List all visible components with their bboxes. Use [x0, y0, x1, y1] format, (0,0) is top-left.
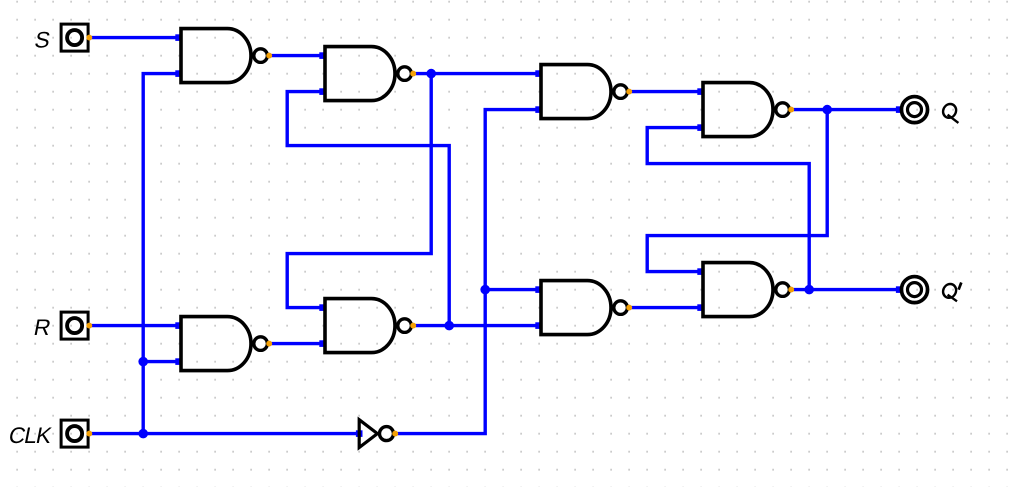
wire U4 out to Q	[791, 108, 899, 111]
port dot U6 out	[410, 323, 416, 329]
junction U9 output net	[480, 285, 490, 295]
wire end at U2.B	[319, 88, 326, 95]
wire end at U6.A	[319, 304, 326, 311]
port dot U2 out	[410, 71, 416, 77]
wire end at U4.B	[697, 124, 704, 131]
wire end at U5.B	[175, 358, 182, 365]
NAND gate U3	[541, 65, 627, 119]
port dot U4 out	[788, 107, 794, 113]
wire U1 out to U2 input A	[269, 54, 324, 57]
port dot U1 out	[266, 53, 272, 59]
wire end at Q1 pin	[896, 286, 903, 293]
svg-text:CLK: CLK	[7, 422, 54, 448]
output pin Q1	[901, 277, 927, 303]
NAND gate U7	[541, 281, 627, 335]
NAND gate U5	[181, 317, 267, 371]
junction CLK net on CLK row	[138, 429, 148, 439]
wire end at Q pin	[896, 106, 903, 113]
wire U6 out to U7 input B	[413, 324, 540, 327]
input pin S	[61, 24, 88, 51]
wire U3 out to U4 input A	[629, 90, 702, 93]
wire R to U5 input A	[90, 324, 181, 327]
junction U6 output net	[444, 321, 454, 331]
NAND gate U8	[703, 263, 789, 317]
wire S to U1 input A	[90, 36, 181, 39]
port dot R pin out	[86, 323, 92, 329]
wire U8 out feedback to U4 input B	[647, 128, 809, 290]
wire CLK riser to U1 input B	[143, 74, 180, 434]
wire CLK to U9 input	[90, 432, 360, 435]
wire end at U2.A	[319, 52, 326, 59]
port dot CLK pin out	[86, 431, 92, 437]
wire end at U8.B	[697, 304, 704, 311]
port dot S pin out	[86, 35, 92, 41]
junction U4 output net / Q	[822, 105, 832, 115]
wire U2 out to U3 input A	[413, 72, 540, 75]
wire U8 out to Q1	[791, 288, 899, 291]
wire end at U5.A	[175, 322, 182, 329]
wire end at U7.A	[535, 286, 542, 293]
input pin R	[61, 312, 88, 339]
wire CLK branch to U5 input B	[143, 360, 180, 363]
port dot U3 out	[626, 89, 632, 95]
wire U9 out to U3 input B	[395, 110, 540, 434]
port dot U8 out	[788, 287, 794, 293]
NAND gate U2	[325, 47, 411, 101]
wire end at U9 input	[356, 430, 363, 437]
wire U4 out feedback to U8 input A	[647, 110, 827, 272]
wire end at U3.A	[535, 70, 542, 77]
wire U6 out feedback to U2 input B	[287, 92, 449, 326]
NAND gate U1	[181, 29, 267, 83]
junction U2 output net	[426, 69, 436, 79]
output pin Q	[901, 97, 927, 123]
wire U2 out feedback to U6 input A	[287, 74, 431, 308]
input pin CLK	[61, 420, 88, 447]
wire end at U6.B	[319, 340, 326, 347]
NAND gate U4	[703, 83, 789, 137]
port dot U5 out	[266, 341, 272, 347]
wire end at U1.B	[175, 70, 182, 77]
port dot U9 out	[392, 431, 398, 437]
wire U5 out to U6 input B	[269, 342, 324, 345]
port dot U7 out	[626, 305, 632, 311]
junction CLK net at U5 branch	[138, 357, 148, 367]
junction U8 output net / Q1	[804, 285, 814, 295]
wire end at U1.A	[175, 34, 182, 41]
NAND gate U6	[325, 299, 411, 353]
wire end at U7.B	[535, 322, 542, 329]
inverter U9	[359, 420, 393, 448]
wire end at U4.A	[697, 88, 704, 95]
wire end at U3.B	[535, 106, 542, 113]
label Q	[942, 104, 958, 123]
wire U7 out to U8 input B	[629, 306, 702, 309]
wire U9 out branch to U7 input A	[485, 288, 540, 291]
wire end at U8.A	[697, 268, 704, 275]
label Q prime	[942, 283, 961, 302]
